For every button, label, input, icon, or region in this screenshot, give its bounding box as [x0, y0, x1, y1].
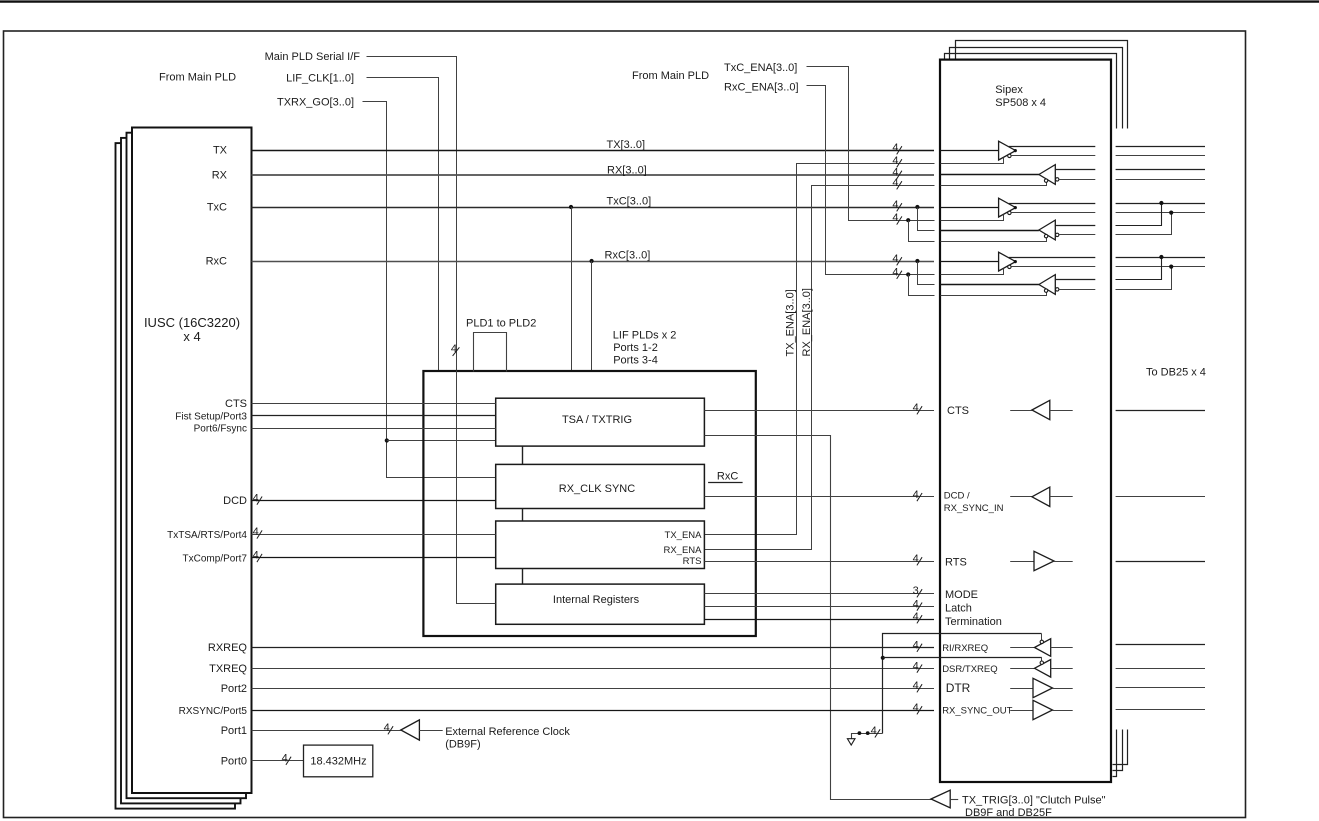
wire RxC driver out- with bubble	[1008, 265, 1011, 268]
external wire CTS	[1116, 410, 1205, 412]
wire TXRX_GO horizontal+drop	[363, 102, 496, 478]
wire RXREQ	[252, 647, 935, 649]
slash 4 on DTR	[917, 684, 922, 692]
svg-text:4: 4	[451, 343, 457, 355]
ground arrow	[847, 739, 855, 745]
svg-text:TX_ENA: TX_ENA	[665, 530, 703, 541]
svg-text:4: 4	[253, 526, 259, 538]
svg-text:4: 4	[892, 177, 898, 189]
wire Termination to Sipex	[704, 619, 934, 621]
svg-text:LIF_CLK[1..0]: LIF_CLK[1..0]	[286, 73, 354, 85]
junction TxC loop+	[1159, 201, 1163, 205]
wire TxC bus	[252, 207, 935, 209]
wire enable return with ground arrow	[852, 734, 883, 739]
slash 4 on Port0	[286, 757, 291, 765]
wire TxC_ENA	[807, 67, 935, 221]
svg-text:TxComp/Port7: TxComp/Port7	[183, 553, 248, 564]
svg-text:Port0: Port0	[221, 756, 247, 768]
external wire DSR/TXREQ	[1116, 668, 1205, 670]
svg-text:From Main PLD: From Main PLD	[159, 72, 236, 84]
wire TX driver enable	[941, 158, 1004, 164]
external wires RxC out-	[1116, 266, 1205, 268]
slash 4 on TxC at Sipex	[897, 203, 902, 211]
oscillator 18.432MHz	[304, 745, 373, 777]
wire TxC-R receiver enable with bubble	[941, 238, 1047, 242]
connector enable block to registers	[522, 569, 524, 585]
svg-text:IUSC (16C3220): IUSC (16C3220)	[144, 315, 240, 330]
svg-text:RX_CLK SYNC: RX_CLK SYNC	[559, 483, 635, 495]
svg-text:TxC_ENA[3..0]: TxC_ENA[3..0]	[724, 62, 797, 74]
svg-text:4: 4	[253, 492, 259, 504]
slash 4 on RX at Sipex	[897, 171, 902, 179]
wire TxC receiver enable loop	[918, 208, 935, 231]
svg-text:SP508 x 4: SP508 x 4	[995, 97, 1046, 109]
junction TXRX_GO branch	[385, 438, 389, 442]
svg-text:4: 4	[892, 267, 898, 279]
external wires RxC out+	[1116, 257, 1205, 259]
line driver TX input	[940, 150, 999, 152]
wire TxC driver out- with bubble	[1008, 211, 1011, 214]
svg-text:RxC: RxC	[206, 256, 227, 268]
svg-text:Sipex: Sipex	[995, 84, 1023, 96]
svg-text:RxC_ENA[3..0]: RxC_ENA[3..0]	[724, 82, 799, 94]
slash 4 on CTS	[917, 406, 922, 414]
svg-text:DCD: DCD	[223, 495, 247, 507]
junction RxC loop	[915, 259, 919, 263]
slash 4 on DCD	[257, 497, 262, 505]
svg-text:TxC[3..0]: TxC[3..0]	[607, 196, 652, 208]
receiver CTS	[1010, 410, 1032, 412]
slash 4 on RX_SYNC_OUT	[917, 706, 922, 714]
svg-text:4: 4	[913, 640, 919, 652]
external wire DTR	[1116, 687, 1205, 689]
svg-text:RX_SYNC_OUT: RX_SYNC_OUT	[942, 706, 1012, 717]
svg-text:4: 4	[913, 489, 919, 501]
external wires TxC out-	[1116, 212, 1205, 214]
wire RxC drop to PLD	[591, 261, 593, 370]
wire DSR/TXREQ enable	[883, 657, 1042, 659]
svg-text:TSA / TXTRIG: TSA / TXTRIG	[562, 414, 632, 426]
slash 4 on TX at Sipex	[897, 146, 902, 154]
svg-text:4: 4	[892, 253, 898, 265]
junction TxC loop-	[1169, 211, 1173, 215]
wire TxC-R receiver output	[940, 230, 1039, 232]
line driver TX	[999, 141, 1016, 160]
external wire RX_SYNC_OUT	[1116, 709, 1205, 711]
external wire RI/RXREQ	[1116, 644, 1205, 646]
receiver DSR with top enable bubble	[1010, 668, 1034, 670]
svg-text:x 4: x 4	[183, 329, 200, 344]
wire Port0	[252, 760, 304, 762]
slash 4 on enable return	[875, 729, 880, 737]
slash 4 on Main PLD Serial I/F	[453, 347, 460, 356]
wire RX receiver in+	[1055, 169, 1095, 171]
svg-text:4: 4	[913, 598, 919, 610]
junction TX driver tip	[1014, 149, 1017, 152]
wire Main PLD Serial I/F into Internal Registers	[457, 371, 496, 604]
wire TX driver out- with bubble	[1008, 154, 1011, 157]
driver RX_SYNC_OUT	[1010, 710, 1033, 712]
svg-text:4: 4	[892, 142, 898, 154]
wire RxC_ENA receiver loop	[909, 275, 935, 296]
line receiver RX	[1039, 165, 1055, 185]
wire RI/RXREQ enable	[883, 634, 1042, 734]
wire TX_TRIG stub	[950, 799, 958, 801]
wire CTS from TSA to Sipex	[704, 410, 934, 412]
svg-text:CTS: CTS	[947, 405, 969, 417]
wire TxComp/Port7 to enable block	[252, 557, 496, 559]
sub-block TSA / TXTRIG	[496, 398, 705, 446]
slash 4 on DCD at Sipex	[917, 493, 922, 501]
wire TSA to TX_TRIG vertical	[705, 436, 932, 800]
wire RX bus	[252, 174, 935, 176]
wire TxC driver enable	[941, 215, 1004, 221]
wire RX receiver enable with bubble	[941, 183, 1047, 186]
svg-text:RI/RXREQ: RI/RXREQ	[942, 643, 988, 654]
sub-block Internal Registers	[496, 584, 705, 624]
junction RxC loop-	[1169, 265, 1173, 269]
wire TxC_ENA receiver loop	[909, 221, 935, 242]
svg-text:TXREQ: TXREQ	[209, 663, 247, 675]
svg-text:RxC[3..0]: RxC[3..0]	[605, 250, 651, 262]
svg-text:LIF PLDs x 2: LIF PLDs x 2	[613, 330, 677, 342]
driver RTS	[1010, 561, 1034, 563]
wire LIF_CLK horizontal+drop	[367, 78, 439, 371]
svg-text:18.432MHz: 18.432MHz	[310, 756, 366, 768]
junction RxC driver tip	[1014, 260, 1017, 263]
svg-text:TxC: TxC	[207, 201, 227, 213]
svg-text:TXRX_GO[3..0]: TXRX_GO[3..0]	[277, 97, 354, 109]
wire RxC-R receiver output	[940, 284, 1039, 286]
svg-text:TX[3..0]: TX[3..0]	[607, 139, 646, 151]
wire RxC receiver output loop	[918, 262, 935, 285]
line driver RxC input	[940, 261, 999, 263]
wire TX bus	[252, 150, 935, 152]
driver DTR	[1010, 688, 1033, 690]
top rule	[0, 0, 1319, 2]
svg-text:Main PLD Serial I/F: Main PLD Serial I/F	[265, 51, 361, 63]
wire Main PLD Serial I/F horizontal	[367, 57, 457, 371]
slash 4 on TX_ENA at Sipex	[897, 159, 902, 167]
wire ext ref clock stub	[419, 730, 442, 732]
wire RxC-R receiver enable with bubble	[941, 293, 1047, 296]
svg-text:TxTSA/RTS/Port4: TxTSA/RTS/Port4	[167, 530, 247, 541]
svg-text:RX_ENA: RX_ENA	[663, 545, 702, 556]
svg-text:TX_ENA[3..0]: TX_ENA[3..0]	[785, 289, 797, 356]
svg-text:4: 4	[913, 611, 919, 623]
wire DCD from RX_CLK to Sipex	[704, 496, 934, 498]
wire RTS to Sipex	[704, 561, 934, 563]
wire RxC driver out+	[1009, 257, 1096, 259]
svg-text:4: 4	[913, 680, 919, 692]
slash 4 on TxC_ENA at Sipex	[897, 216, 902, 224]
wire TxC-R receiver in- with bubble	[1056, 233, 1059, 236]
svg-text:4: 4	[913, 660, 919, 672]
svg-text:Internal Registers: Internal Registers	[553, 594, 640, 606]
svg-text:4: 4	[913, 553, 919, 565]
svg-text:4: 4	[892, 155, 898, 167]
svg-text:RX[3..0]: RX[3..0]	[607, 165, 647, 177]
svg-text:4: 4	[913, 702, 919, 714]
svg-text:Latch: Latch	[945, 603, 972, 615]
svg-text:From Main PLD: From Main PLD	[632, 70, 709, 82]
buffer external reference clock input	[401, 720, 420, 740]
external loopback TxC in-	[1116, 213, 1172, 235]
svg-text:RXSYNC/Port5: RXSYNC/Port5	[179, 706, 248, 717]
wire RxC driver enable	[941, 269, 1004, 275]
svg-text:To DB25 x 4: To DB25 x 4	[1146, 367, 1206, 379]
svg-text:4: 4	[871, 725, 877, 737]
svg-text:4: 4	[253, 550, 259, 562]
wire CTS to TSA	[252, 403, 496, 405]
svg-text:RXREQ: RXREQ	[208, 642, 248, 654]
svg-text:RX_ENA[3..0]: RX_ENA[3..0]	[801, 288, 813, 356]
slash 3 on MODE	[917, 589, 922, 597]
svg-text:DTR: DTR	[946, 681, 971, 695]
svg-text:4: 4	[384, 722, 390, 734]
external wire DCD	[1116, 496, 1205, 498]
svg-text:RX_SYNC_IN: RX_SYNC_IN	[944, 503, 1004, 514]
svg-text:RX: RX	[212, 170, 228, 182]
svg-text:4: 4	[282, 753, 288, 765]
svg-text:4: 4	[892, 212, 898, 224]
PLD1-PLD2 bracket	[474, 333, 507, 372]
svg-text:4: 4	[892, 199, 898, 211]
svg-text:DCD /: DCD /	[944, 491, 970, 502]
junction enable return a	[858, 731, 862, 735]
svg-text:External Reference Clock: External Reference Clock	[445, 726, 570, 738]
svg-text:TX_TRIG[3..0] "Clutch Pulse": TX_TRIG[3..0] "Clutch Pulse"	[962, 795, 1106, 807]
wire RxC-R receiver in+	[1055, 279, 1095, 281]
wire Port6/Fsync to TSA	[252, 428, 496, 430]
wire Fist Setup/Port3 to TSA	[252, 415, 496, 417]
svg-text:DSR/TXREQ: DSR/TXREQ	[942, 664, 997, 675]
slash 4 on DSR/TXREQ	[917, 665, 922, 673]
wire TXREQ	[252, 668, 935, 670]
wire TxC driver out+	[1009, 203, 1096, 205]
external loopback RxC in-	[1116, 267, 1172, 290]
junction RxC to PLD drop	[590, 259, 594, 263]
slash 4 on RTS at Sipex	[917, 557, 922, 565]
slash 4 on RxC at Sipex	[897, 257, 902, 265]
junction TxC to PLD drop	[569, 205, 573, 209]
svg-text:RTS: RTS	[683, 556, 702, 567]
wire RxC bus	[252, 261, 935, 263]
svg-text:Port1: Port1	[221, 725, 247, 737]
slash 4 on RX_ENA at Sipex	[897, 181, 902, 189]
line driver TxC	[999, 198, 1016, 217]
line driver TxC input	[940, 207, 999, 209]
wire TxC-R receiver in+	[1055, 225, 1095, 227]
wire TXRX_GO branch to TSA	[387, 440, 496, 442]
wire RX receiver in- with bubble	[1056, 178, 1059, 181]
slash 4 on TxComp	[257, 554, 262, 562]
wire DCD to RX_CLK SYNC	[252, 500, 496, 502]
wire Port1	[252, 730, 401, 732]
junction TxC loop	[915, 205, 919, 209]
external wire RTS	[1116, 561, 1205, 563]
slash 4 on Port1	[388, 726, 393, 734]
junction TxC_ENA loop	[906, 218, 910, 222]
slash 4 on Termination	[917, 615, 922, 623]
IUSC chip U1 main box	[132, 128, 252, 794]
svg-text:Termination: Termination	[945, 616, 1002, 628]
wire RxC-R receiver in- with bubble	[1056, 288, 1059, 291]
wire RxC_ENA	[807, 86, 935, 275]
svg-text:3: 3	[913, 585, 919, 597]
junction enable return b	[866, 731, 870, 735]
junction RxC loop+	[1159, 255, 1163, 259]
connector RX_CLK to enable block	[522, 509, 524, 522]
svg-text:Port2: Port2	[221, 683, 247, 695]
receiver RI with top enable bubble	[1010, 647, 1034, 649]
wire TxC drop to PLD	[571, 207, 573, 370]
svg-text:PLD1 to PLD2: PLD1 to PLD2	[466, 318, 536, 330]
Sipex SP508 stack pages	[945, 54, 1117, 129]
wire Port2	[252, 688, 935, 690]
line receiver RxC-R	[1039, 275, 1055, 295]
external loopback TxC in+	[1116, 204, 1162, 226]
svg-text:Ports 1-2: Ports 1-2	[613, 342, 658, 354]
slash 4 on TxTSA	[257, 530, 262, 538]
svg-text:4: 4	[913, 402, 919, 414]
sub-block RX_CLK SYNC	[496, 464, 705, 508]
wire RX_ENA from PLD box up to RX receiver enable	[705, 186, 935, 550]
external loopback RxC in+	[1116, 258, 1162, 280]
IUSC chip stack x4 (back pages)	[116, 143, 236, 809]
svg-text:(DB9F): (DB9F)	[445, 739, 480, 751]
slash 4 on Latch	[917, 603, 922, 611]
svg-text:DB9F and DB25F: DB9F and DB25F	[965, 807, 1052, 819]
line driver RxC	[999, 252, 1016, 271]
connector TSA to RX_CLK	[522, 446, 524, 464]
junction RxC_ENA loop	[906, 272, 910, 276]
LIF PLD block U2	[423, 371, 755, 636]
line receiver TxC-R	[1039, 220, 1055, 240]
buffer TX_TRIG clutch pulse	[931, 790, 950, 808]
junction TxC driver tip	[1014, 206, 1017, 209]
wire RXSYNC/Port5	[252, 710, 935, 712]
slash 4 on RI/RXREQ	[917, 644, 922, 652]
svg-text:Fist Setup/Port3: Fist Setup/Port3	[175, 411, 247, 422]
wire TxTSA/RTS/Port4 to enable block	[252, 534, 496, 536]
slash 4 on RxC_ENA at Sipex	[897, 271, 902, 279]
wire Latch to Sipex	[704, 606, 934, 608]
wire TX driver out+	[1009, 146, 1096, 148]
external wires TX/RX group	[1116, 146, 1205, 148]
svg-text:CTS: CTS	[225, 398, 247, 410]
Sipex SP508 x 4 main box U3	[940, 60, 1111, 782]
receiver DCD	[1010, 496, 1032, 498]
junction DSR enable	[881, 656, 885, 660]
svg-text:RxC: RxC	[717, 471, 738, 483]
sub-block enable logic	[496, 521, 705, 569]
svg-text:Ports 3-4: Ports 3-4	[613, 354, 658, 366]
svg-text:MODE: MODE	[945, 589, 978, 601]
wire RX receiver output	[940, 174, 1039, 176]
wire TX_ENA from PLD box up to TX driver enable	[705, 164, 935, 535]
external wires TxC out+	[1116, 203, 1205, 205]
svg-text:TX: TX	[213, 145, 228, 157]
svg-text:Port6/Fsync: Port6/Fsync	[194, 424, 247, 435]
wire MODE to Sipex	[704, 593, 934, 595]
svg-text:RTS: RTS	[945, 557, 967, 569]
